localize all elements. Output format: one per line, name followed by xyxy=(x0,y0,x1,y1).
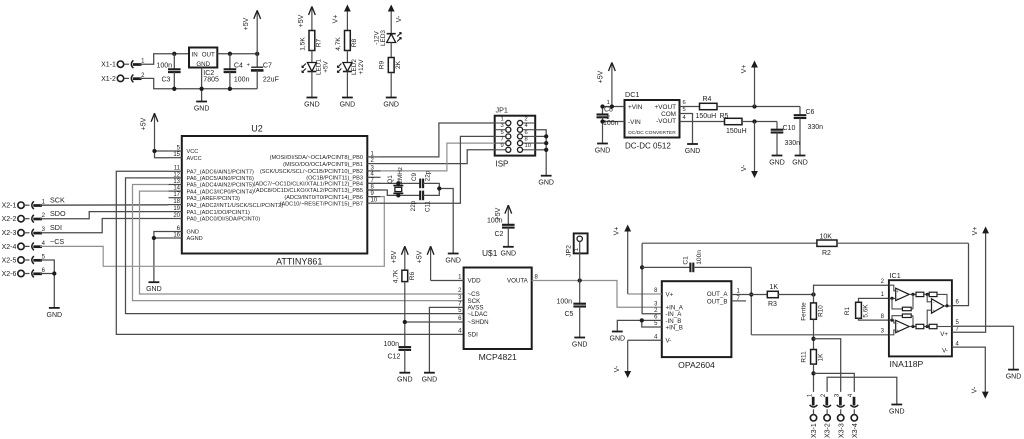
pin 6 GND of U2 xyxy=(169,231,182,233)
svg-text:GND: GND xyxy=(792,159,808,166)
svg-text:R5: R5 xyxy=(720,113,729,120)
connector X2-6 xyxy=(18,270,24,276)
svg-text:GND: GND xyxy=(769,159,785,166)
svg-text:R1: R1 xyxy=(844,306,851,315)
svg-text:JP2: JP2 xyxy=(566,245,573,257)
svg-text:V-: V- xyxy=(741,164,748,171)
svg-text:V+: V+ xyxy=(614,227,621,236)
supply V+ arrow (DC1 out) xyxy=(754,64,756,107)
svg-text:C2: C2 xyxy=(495,231,504,238)
node C8 top xyxy=(600,104,604,108)
wire XTAL1 net xyxy=(368,182,420,184)
connector X2-5 xyxy=(18,257,24,263)
pin 4 PB3 of U2 xyxy=(367,176,380,178)
svg-text:1K: 1K xyxy=(770,284,779,291)
svg-text:OPA2604: OPA2604 xyxy=(678,360,715,370)
pin 7 PB4 of U2 xyxy=(367,182,380,184)
svg-text:AGND: AGND xyxy=(187,236,203,242)
supply V+ arrow (LED2) xyxy=(346,8,348,31)
node VOUTA / JP2 xyxy=(578,278,582,282)
ground crystal caps xyxy=(448,253,459,255)
svg-text:SDO: SDO xyxy=(50,209,66,218)
connector X1-1 xyxy=(117,61,123,67)
svg-text:10: 10 xyxy=(371,198,378,204)
ground OPA inputs xyxy=(612,331,623,333)
ground C12 xyxy=(399,372,410,374)
svg-text:~CS: ~CS xyxy=(50,237,64,246)
wire X1-1 to IN rail xyxy=(140,54,190,64)
wire V+ to pin8 xyxy=(628,293,662,295)
resistor R11 1K xyxy=(811,350,817,365)
pin 8 PB5 of U2 xyxy=(367,189,380,191)
svg-text:X2-3: X2-3 xyxy=(2,230,17,237)
svg-text:C6: C6 xyxy=(806,109,815,116)
svg-text:DC-DC 0512: DC-DC 0512 xyxy=(625,142,671,151)
svg-text:V-: V- xyxy=(396,15,403,22)
wire LED2 to ground xyxy=(346,72,348,98)
svg-text:GND: GND xyxy=(146,286,162,293)
wire IC1 V- supply xyxy=(952,347,985,391)
svg-text:+VOUT: +VOUT xyxy=(655,104,677,111)
connector JP1 ISP body xyxy=(495,116,536,156)
capacitor C3 100n xyxy=(173,54,175,70)
capacitor C7 22uF polarized xyxy=(256,54,258,67)
svg-text:V+: V+ xyxy=(940,331,948,338)
pin 8 of JP1 xyxy=(517,141,522,146)
svg-text:PA3_(AREF/PCINT3): PA3_(AREF/PCINT3) xyxy=(187,196,240,202)
svg-text:COM: COM xyxy=(661,111,676,118)
wire XTAL2 net xyxy=(368,190,420,195)
IC1 internal output amp xyxy=(932,299,945,313)
node B (R10/R11/X3-3) xyxy=(811,337,815,341)
node GND rail xyxy=(199,87,203,91)
LED LED1 +5V xyxy=(307,63,316,72)
node C3 bottom xyxy=(172,87,176,91)
svg-text:X2-5: X2-5 xyxy=(2,257,17,264)
svg-text:R3: R3 xyxy=(768,301,777,308)
ground below IC2 xyxy=(196,101,207,103)
svg-text:X2-1: X2-1 xyxy=(2,203,17,210)
svg-text:U2: U2 xyxy=(251,124,263,134)
svg-text:GND: GND xyxy=(47,312,63,319)
wire R3 to node A xyxy=(778,294,813,296)
pin 6 of JP1 xyxy=(517,134,522,139)
capacitor C11 22p xyxy=(419,191,421,201)
svg-text:4,7K: 4,7K xyxy=(392,269,399,283)
ground LED3 xyxy=(386,97,397,99)
svg-text:330n: 330n xyxy=(785,140,801,147)
pin 10 PB7 of U2 xyxy=(367,202,380,204)
capacitor C12 100n xyxy=(399,346,412,348)
svg-text:11: 11 xyxy=(174,166,181,172)
node JP1 pin6 xyxy=(544,134,548,138)
svg-text:5: 5 xyxy=(500,130,503,136)
svg-text:SDI: SDI xyxy=(50,223,62,232)
svg-text:17: 17 xyxy=(173,192,180,198)
wire JP1 ground pins xyxy=(535,130,546,176)
pin 3 of JP1 xyxy=(506,127,511,132)
svg-text:X2-6: X2-6 xyxy=(2,271,17,278)
svg-text:12: 12 xyxy=(173,172,180,178)
svg-text:GND: GND xyxy=(889,408,905,415)
pin 14 PA4 of U2 xyxy=(169,190,182,192)
wire AVSS to ground xyxy=(429,307,463,372)
connector X3-3 xyxy=(838,415,844,421)
svg-text:AVCC: AVCC xyxy=(187,156,202,162)
node ~SHDN xyxy=(403,320,407,324)
svg-text:(ADC9/INT0/T0/PCINT14)_PB6: (ADC9/INT0/T0/PCINT14)_PB6 xyxy=(284,195,363,201)
svg-text:JP1: JP1 xyxy=(496,106,508,115)
svg-text:(MISO/DO/OC1A/PCINT9)_PB1: (MISO/DO/OC1A/PCINT9)_PB1 xyxy=(283,162,363,168)
pin 4 of JP1 xyxy=(517,127,522,132)
node XTAL1 crystal xyxy=(396,181,400,185)
svg-text:INA118P: INA118P xyxy=(890,359,924,369)
svg-text:MCP4821: MCP4821 xyxy=(479,352,517,362)
svg-text:2: 2 xyxy=(525,116,528,122)
svg-text:+5V: +5V xyxy=(391,250,398,263)
svg-text:Q1: Q1 xyxy=(387,175,394,184)
svg-text:Ferrite: Ferrite xyxy=(801,302,808,321)
svg-text:OUT_A: OUT_A xyxy=(707,291,729,298)
svg-text:150uH: 150uH xyxy=(696,113,717,120)
wire +5V to VCC and AVCC xyxy=(155,150,169,152)
supply V+ arrow (OPA) xyxy=(627,228,629,295)
svg-text:1,5K: 1,5K xyxy=(299,37,306,51)
inductor R4 150uH xyxy=(700,103,718,109)
svg-text:SCK: SCK xyxy=(50,196,65,205)
svg-text:+IN_B: +IN_B xyxy=(666,324,683,331)
svg-text:-VOUT: -VOUT xyxy=(656,118,676,125)
ground C6 xyxy=(795,155,806,157)
node JP1 pin8 xyxy=(544,141,548,145)
wire OUT_A to R3 xyxy=(731,294,767,296)
connector X2-4 xyxy=(18,243,24,249)
capacitor C4 100n xyxy=(229,54,231,70)
pin 11 PA7 of U2 xyxy=(169,170,182,172)
svg-text:10: 10 xyxy=(525,143,531,149)
svg-text:C9: C9 xyxy=(411,172,418,181)
svg-text:R10: R10 xyxy=(818,305,825,317)
node JP1 pin10 xyxy=(544,148,548,152)
svg-text:GND: GND xyxy=(304,101,320,108)
capacitor C1 100n xyxy=(642,266,690,268)
resistor R3 1K xyxy=(767,291,778,297)
svg-text:X3-1: X3-1 xyxy=(811,423,818,438)
svg-text:22p: 22p xyxy=(410,200,417,211)
svg-text:330n: 330n xyxy=(808,124,824,131)
pin 2 -VIN of DC1 xyxy=(603,121,625,123)
svg-text:6: 6 xyxy=(683,100,686,106)
node C4 bottom xyxy=(228,87,232,91)
svg-text:+VIN: +VIN xyxy=(628,104,643,111)
IC1 internal RG resistors xyxy=(889,297,896,299)
wire IC1 V+ supply xyxy=(952,234,986,333)
supply +5V arrow (MCP VDD) xyxy=(430,246,432,280)
pin 10 of JP1 xyxy=(517,147,522,152)
svg-text:100n: 100n xyxy=(603,120,619,127)
supply +5V arrow (U2 VCC) xyxy=(154,113,156,151)
svg-text:LED3: LED3 xyxy=(380,30,387,46)
pin 20 PA0 of U2 xyxy=(169,218,182,220)
wire ~SHDN xyxy=(405,321,464,323)
pin 2 PB1 of U2 xyxy=(367,163,380,165)
pin 2 of JP1 xyxy=(517,120,522,125)
node C8 bottom xyxy=(600,119,604,123)
svg-text:1: 1 xyxy=(574,248,580,251)
svg-text:100n: 100n xyxy=(696,250,703,265)
connector X1-2 xyxy=(117,75,123,81)
node C1 left xyxy=(640,265,644,269)
svg-text:+: + xyxy=(896,328,899,333)
ground U2 xyxy=(149,281,160,283)
svg-text:SDI: SDI xyxy=(468,332,479,339)
capacitor C9 22p xyxy=(419,179,421,189)
op DC1 DC-DC 0512 body xyxy=(625,100,680,138)
svg-text:GND: GND xyxy=(1006,374,1022,381)
svg-text:V+: V+ xyxy=(666,291,674,298)
pin 7 of JP1 xyxy=(506,141,511,146)
connector X3-4 xyxy=(851,415,857,421)
node XTAL2 crystal xyxy=(396,193,400,197)
svg-text:+5V: +5V xyxy=(597,70,604,83)
supply V+ arrow (IC1) xyxy=(985,229,987,233)
svg-text:3: 3 xyxy=(500,123,503,129)
pin 9 PB6 of U2 xyxy=(367,196,380,198)
node VCC xyxy=(152,149,156,153)
wire SCK X2-1 to PA2 xyxy=(40,204,169,206)
ground LED1 xyxy=(307,97,318,99)
svg-text:GND: GND xyxy=(340,101,356,108)
pin 3 PB2 of U2 xyxy=(367,170,380,172)
pin 1 +VIN of DC1 xyxy=(603,106,625,108)
svg-text:7805: 7805 xyxy=(203,76,219,83)
wire node A to INA +input xyxy=(814,285,889,294)
IC1 internal buffer B xyxy=(896,320,910,332)
capacitor C5 100n xyxy=(579,281,581,304)
pin 5 COM of DC1 xyxy=(680,114,693,145)
pin 4 -VOUT of DC1 xyxy=(680,121,725,123)
wire node B to X3-3 xyxy=(814,339,841,392)
svg-text:V-: V- xyxy=(971,386,978,393)
svg-text:+5V: +5V xyxy=(323,60,330,72)
wire R6 to ~SHDN and C12 xyxy=(404,282,406,348)
pin 13 PA5 of U2 xyxy=(169,184,182,186)
supply +5V arrow (regulator output) xyxy=(256,10,258,53)
svg-text:(OC1B/PCINT11)_PB3: (OC1B/PCINT11)_PB3 xyxy=(306,176,363,182)
svg-text:18: 18 xyxy=(173,199,180,205)
node AGND xyxy=(152,236,156,240)
svg-text:GND: GND xyxy=(383,101,399,108)
ground JP1 xyxy=(541,175,552,177)
svg-text:GND: GND xyxy=(445,257,461,264)
inductor R5 150uH xyxy=(725,118,743,124)
svg-text:+12V: +12V xyxy=(358,59,365,75)
svg-text:20: 20 xyxy=(173,213,180,219)
pin 9 of JP1 xyxy=(506,147,511,152)
node +VIN xyxy=(610,104,614,108)
svg-text:VOUTA: VOUTA xyxy=(507,278,529,285)
svg-text:(MOSI/DI/SDA/~OC1A/PCINT8)_PB0: (MOSI/DI/SDA/~OC1A/PCINT8)_PB0 xyxy=(270,155,363,161)
svg-text:R4: R4 xyxy=(703,96,712,103)
svg-text:2K: 2K xyxy=(395,60,402,69)
svg-text:GND: GND xyxy=(397,377,413,384)
resistor R9 2K xyxy=(388,58,394,73)
svg-text:V-: V- xyxy=(614,365,621,372)
wire VOUTA to OPA +IN_A xyxy=(532,281,662,308)
svg-text:V+: V+ xyxy=(332,15,339,24)
IC2 7805 regulator xyxy=(189,48,217,68)
wire R2 to INA output xyxy=(952,243,969,305)
capacitor C8 100n xyxy=(602,107,604,115)
svg-text:R2: R2 xyxy=(822,250,831,257)
svg-text:C4: C4 xyxy=(234,63,243,70)
IC1 internal output node xyxy=(944,305,952,307)
svg-text:GND: GND xyxy=(572,341,588,348)
supply V- arrow (LED3) xyxy=(390,8,392,34)
svg-text:C3: C3 xyxy=(162,77,171,84)
resistor R7 1.5K xyxy=(309,31,315,51)
svg-text:(ADC7/~OC1D/CLKI/XTAL1/PCINT12: (ADC7/~OC1D/CLKI/XTAL1/PCINT12)_PB4 xyxy=(254,182,363,188)
svg-text:4,7K: 4,7K xyxy=(335,37,342,51)
wire LED3 to R9 xyxy=(390,43,392,58)
svg-text:X2-2: X2-2 xyxy=(2,216,17,223)
svg-text:ATTINY861: ATTINY861 xyxy=(276,257,322,267)
wire PA7 to MCP SDI xyxy=(116,171,463,334)
ground LED2 xyxy=(342,97,353,99)
connector X3-2 xyxy=(824,415,830,421)
op U2 ATTINY861 body xyxy=(182,136,367,254)
connector X2-3 xyxy=(18,230,24,236)
node V+ rail xyxy=(752,104,756,108)
svg-text:GND: GND xyxy=(610,335,626,342)
pin 15 AVCC of U2 xyxy=(169,157,182,159)
svg-text:100n: 100n xyxy=(234,77,250,84)
svg-text:R11: R11 xyxy=(801,351,808,363)
node C3 top xyxy=(172,52,176,56)
op IC1 INA118P body xyxy=(889,280,952,356)
svg-text:DC1: DC1 xyxy=(625,90,639,99)
wire +5V to VDD xyxy=(431,280,464,282)
ground IC1 REF xyxy=(1008,369,1019,371)
svg-text:10K: 10K xyxy=(820,234,833,241)
svg-text:ISP: ISP xyxy=(496,160,509,169)
connector X2-2 xyxy=(18,216,24,222)
connector X3-1 xyxy=(810,415,816,421)
pin 5 VCC of U2 xyxy=(169,150,182,152)
svg-text:7: 7 xyxy=(500,137,503,143)
svg-text:OUT_B: OUT_B xyxy=(707,298,728,305)
pin 1 PB0 of U2 xyxy=(367,156,380,158)
wire caps common to ground xyxy=(423,183,439,195)
resistor R2 10K xyxy=(642,242,817,244)
supply +5V arrow (C2) xyxy=(507,205,509,225)
pin 1 of JP1 xyxy=(506,120,511,125)
svg-text:5: 5 xyxy=(683,107,686,113)
svg-text:X2-4: X2-4 xyxy=(2,244,17,251)
svg-text:DC/DC CONVERTER: DC/DC CONVERTER xyxy=(628,130,676,136)
svg-text:1: 1 xyxy=(607,100,610,106)
resistor R8 4.7K xyxy=(345,31,351,51)
wire U2 GND/AGND to ground xyxy=(154,232,169,283)
wire ~CS X2-4 to PB6 xyxy=(40,197,384,267)
svg-text:GND: GND xyxy=(538,180,554,187)
node cap common xyxy=(437,186,441,190)
svg-text:GND: GND xyxy=(187,230,199,236)
svg-text:100n: 100n xyxy=(487,217,503,224)
wire node C to X3-4 xyxy=(814,373,855,392)
svg-text:100n: 100n xyxy=(384,341,400,348)
pin 18 PA2 of U2 xyxy=(169,204,182,206)
svg-text:(SCK/USCK/SCL/~OC1B/PCINT10)_P: (SCK/USCK/SCL/~OC1B/PCINT10)_PB2 xyxy=(260,169,363,175)
ground C5 xyxy=(574,337,585,339)
svg-text:GND: GND xyxy=(196,61,210,68)
capacitor C10 330n xyxy=(776,122,778,130)
svg-text:R8: R8 xyxy=(351,38,358,47)
svg-text:13: 13 xyxy=(173,179,180,185)
wire IC1 pin5 REF to ground xyxy=(952,326,1014,369)
pin OUT_B stub xyxy=(731,300,746,302)
svg-text:+5V: +5V xyxy=(243,17,250,30)
op U1 OPA2604 body xyxy=(662,281,732,357)
svg-text:~LDAC: ~LDAC xyxy=(468,311,489,318)
svg-text:PA2_(ADC2/INT1/USCK/SCL/PCINT2: PA2_(ADC2/INT1/USCK/SCL/PCINT2) xyxy=(187,203,284,209)
wire X3-2 to ground xyxy=(827,377,897,404)
crystal Q1 12MHz xyxy=(393,185,403,187)
svg-text:PA0_(ADC0/DI/SDA/PCINT0): PA0_(ADC0/DI/SDA/PCINT0) xyxy=(187,217,261,223)
svg-text:5,6K: 5,6K xyxy=(863,304,870,318)
svg-text:150uH: 150uH xyxy=(726,128,747,135)
ground C10 xyxy=(772,155,783,157)
svg-text:X3-3: X3-3 xyxy=(838,423,845,438)
node X2-6 xyxy=(52,271,56,275)
connector JP2 xyxy=(574,233,588,253)
supply V- arrow (IC1) xyxy=(984,392,986,396)
connector X2-1 xyxy=(18,202,24,208)
svg-text:IC1: IC1 xyxy=(890,271,901,280)
wire R5 to V- rail xyxy=(742,121,777,123)
node C4 top xyxy=(228,52,232,56)
wire V- pin4 xyxy=(628,339,662,341)
wire R8 to LED2 xyxy=(346,51,348,63)
svg-text:X1-2: X1-2 xyxy=(101,76,116,83)
wire C1 right to OUT_A xyxy=(750,267,752,334)
svg-text:+: + xyxy=(896,289,899,294)
resistor R10 Ferrite xyxy=(813,295,815,303)
wire OUT_A to INA -input (pin3 line) xyxy=(751,334,889,336)
svg-text:16: 16 xyxy=(173,232,180,238)
svg-text:100n: 100n xyxy=(557,298,573,305)
svg-text:+: + xyxy=(247,62,250,68)
capacitor C2 100n xyxy=(502,224,515,226)
supply +5V arrow (LED1) xyxy=(311,7,313,31)
svg-text:1: 1 xyxy=(500,116,503,122)
wire SDI X2-3 to PA0 xyxy=(40,219,169,233)
svg-text:GND: GND xyxy=(595,147,611,154)
ground C2 xyxy=(503,246,514,248)
pin 5 of JP1 xyxy=(506,134,511,139)
supply V- arrow (DC1 out) xyxy=(754,122,756,176)
svg-text:GND: GND xyxy=(422,377,438,384)
svg-text:19: 19 xyxy=(173,206,180,212)
node C (R11/X3-1/X3-4) xyxy=(811,371,815,375)
svg-text:22p: 22p xyxy=(424,170,431,181)
supply +5V arrow (R6) xyxy=(404,246,406,270)
svg-text:R6: R6 xyxy=(409,271,416,280)
wire -IN_B +IN_B to ground xyxy=(642,320,662,327)
svg-text:OUT: OUT xyxy=(202,51,215,58)
op U$1 MCP4821 body xyxy=(464,268,532,350)
wire X2-5 X2-6 to ground xyxy=(40,260,54,308)
